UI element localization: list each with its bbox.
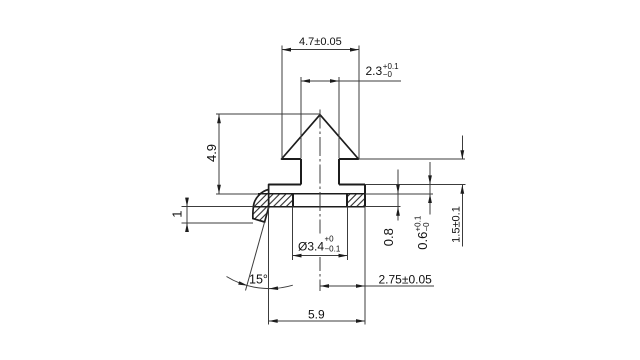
svg-text:1.5±0.1: 1.5±0.1 [451, 206, 463, 243]
svg-text:−0: −0 [383, 70, 393, 79]
svg-text:4.9: 4.9 [204, 144, 219, 162]
svg-text:2.3: 2.3 [366, 64, 383, 78]
svg-text:−0.1: −0.1 [325, 245, 341, 254]
svg-text:0.8: 0.8 [381, 228, 396, 246]
svg-text:4.7±0.05: 4.7±0.05 [299, 36, 342, 48]
svg-text:1: 1 [169, 211, 184, 218]
svg-text:Ø3.4: Ø3.4 [298, 240, 324, 254]
svg-text:5.9: 5.9 [308, 307, 325, 321]
svg-text:0.6: 0.6 [415, 232, 430, 250]
svg-text:+0: +0 [325, 235, 335, 244]
svg-text:15°: 15° [249, 273, 268, 287]
svg-text:2.75±0.05: 2.75±0.05 [379, 272, 433, 286]
svg-text:−0: −0 [422, 222, 431, 232]
